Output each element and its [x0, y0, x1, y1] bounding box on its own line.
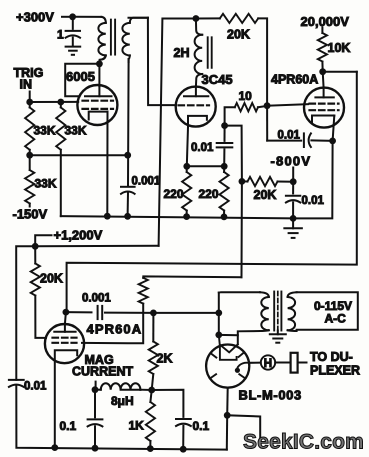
svg-text:33K: 33K — [65, 124, 87, 138]
svg-text:4PR60A: 4PR60A — [271, 73, 318, 87]
svg-text:TO DU-: TO DU- — [310, 350, 353, 364]
svg-text:CURRENT: CURRENT — [72, 365, 133, 379]
svg-text:6005: 6005 — [66, 69, 95, 84]
svg-text:A-C: A-C — [325, 312, 347, 326]
svg-text:0.01: 0.01 — [278, 130, 301, 142]
svg-text:220: 220 — [164, 187, 184, 201]
svg-text:20,000V: 20,000V — [301, 14, 350, 29]
svg-text:2H: 2H — [174, 46, 190, 60]
svg-text:220: 220 — [199, 187, 219, 201]
svg-text:20K: 20K — [254, 188, 277, 202]
svg-text:2K: 2K — [157, 352, 173, 366]
svg-text:3C45: 3C45 — [202, 72, 233, 87]
svg-text:10: 10 — [239, 89, 253, 103]
svg-text:-150V: -150V — [13, 207, 48, 222]
svg-text:10K: 10K — [328, 41, 351, 55]
svg-text:+300V: +300V — [16, 10, 54, 25]
svg-text:33K: 33K — [34, 124, 56, 138]
svg-text:+1,200V: +1,200V — [54, 228, 103, 243]
svg-text:0.001: 0.001 — [132, 176, 161, 188]
svg-text:1K: 1K — [129, 419, 145, 433]
svg-text:4PR60A: 4PR60A — [87, 322, 143, 337]
svg-text:0.01: 0.01 — [302, 195, 325, 207]
svg-text:33K: 33K — [35, 177, 57, 191]
svg-text:H: H — [264, 358, 272, 370]
svg-text:0.1: 0.1 — [193, 419, 210, 433]
svg-text:BL-M-003: BL-M-003 — [239, 388, 302, 403]
svg-text:8μH: 8μH — [111, 394, 134, 408]
svg-text:0.1: 0.1 — [60, 419, 77, 433]
svg-text:20K: 20K — [40, 272, 63, 286]
svg-text:IN: IN — [20, 78, 33, 92]
svg-text:1: 1 — [57, 28, 64, 42]
svg-text:SeekIC.com: SeekIC.com — [243, 431, 364, 454]
svg-text:0.01: 0.01 — [191, 142, 214, 154]
svg-text:0.01: 0.01 — [24, 381, 47, 393]
svg-text:-800V: -800V — [271, 154, 312, 169]
svg-text:0.001: 0.001 — [82, 293, 111, 305]
svg-text:20K: 20K — [227, 28, 250, 42]
svg-text:PLEXER: PLEXER — [310, 364, 360, 378]
